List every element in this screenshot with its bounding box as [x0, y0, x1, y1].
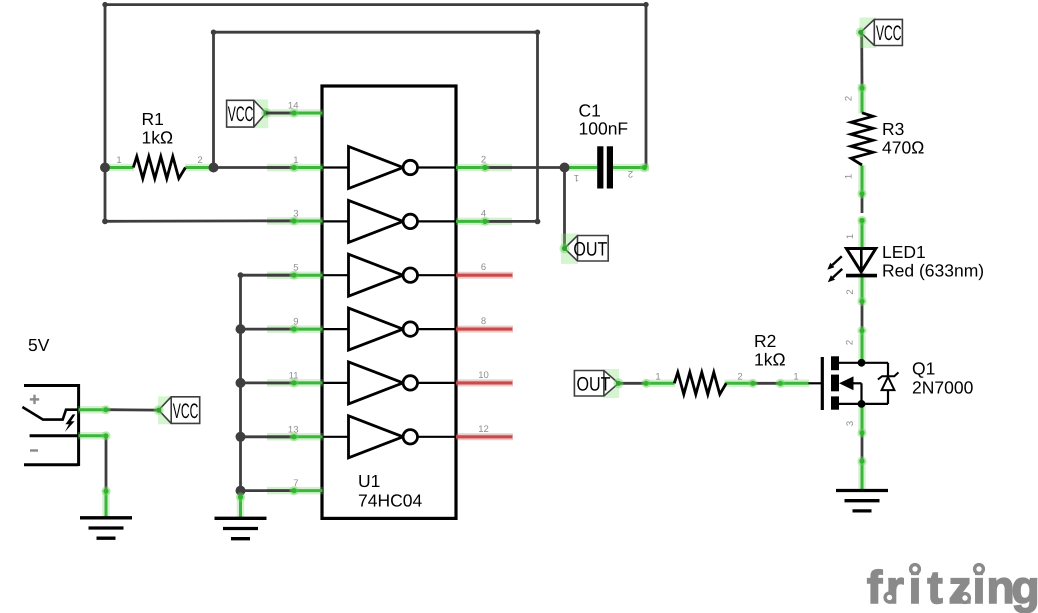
node corner top right — [643, 2, 648, 7]
svg-text:Q1: Q1 — [912, 359, 935, 379]
svg-text:OUT: OUT — [573, 238, 607, 260]
svg-text:OUT: OUT — [577, 373, 611, 395]
junction bus pin 7 — [236, 486, 246, 496]
ground symbol battery — [80, 490, 132, 538]
svg-text:1: 1 — [793, 372, 798, 383]
wire R3.1 to LED1 anode — [861, 189, 864, 213]
wire R1.2 vertical up — [212, 32, 215, 167]
wire bus to pin 9 — [241, 328, 295, 331]
svg-text:Red (633nm): Red (633nm) — [882, 261, 984, 281]
svg-text:2: 2 — [628, 168, 633, 179]
svg-text:R2: R2 — [754, 331, 776, 351]
svg-text:VCC: VCC — [876, 22, 902, 45]
junction R1 pin1 — [100, 163, 110, 173]
svg-text:1: 1 — [845, 234, 856, 239]
svg-text:2N7000: 2N7000 — [912, 378, 974, 398]
capacitor C1 100nF — [561, 101, 649, 189]
svg-text:U1: U1 — [358, 471, 380, 491]
junction bus pin 13 — [236, 432, 246, 442]
wire overlay strokes over pin halos — [266, 113, 512, 491]
node feedback corner — [102, 218, 108, 224]
svg-text:1: 1 — [116, 155, 121, 166]
junction R1 pin2 — [209, 163, 219, 173]
node green wire end dots — [101, 83, 866, 501]
op-amp U1 74HC04 hex inverter — [267, 86, 513, 518]
svg-text:n: n — [986, 561, 1014, 613]
transistor Q1 2N7000 n-MOSFET — [780, 331, 974, 433]
resistor R3 470 ohm — [844, 84, 925, 194]
wire second top horizontal — [214, 31, 538, 34]
node dark junction and corner dots — [100, 2, 649, 496]
wire pin 2 to C1 junction — [485, 166, 565, 169]
wire bus to pin 11 — [241, 381, 295, 384]
LED1 Red 633nm — [827, 218, 984, 303]
power source 5V barrel jack J1 — [22, 335, 106, 466]
svg-text:100nF: 100nF — [579, 119, 629, 139]
svg-text:z: z — [949, 561, 972, 613]
power label VCC flag at battery — [154, 396, 200, 424]
svg-text:10: 10 — [478, 370, 489, 381]
svg-text:g: g — [1011, 561, 1038, 613]
junction bus pin 11 — [236, 378, 246, 388]
svg-text:1: 1 — [655, 372, 660, 383]
svg-text:2: 2 — [737, 372, 742, 383]
wire battery minus down — [105, 436, 108, 491]
wire pin 4 to vertical — [485, 220, 538, 223]
svg-text:1: 1 — [574, 172, 579, 183]
svg-text:2: 2 — [197, 155, 202, 166]
net label OUT flag lower — [574, 369, 623, 398]
svg-text:12: 12 — [478, 424, 489, 435]
power label VCC flag at pin 14 — [227, 99, 271, 128]
net label OUT flag upper — [560, 234, 609, 264]
svg-text:1kΩ: 1kΩ — [754, 350, 786, 370]
wire R2.2 to Q1 gate — [753, 382, 780, 385]
svg-text:1kΩ: 1kΩ — [142, 128, 174, 148]
svg-text:VCC: VCC — [228, 103, 254, 126]
wire VCC flag to pin 14 — [266, 112, 294, 115]
junction bus pin 9 — [236, 324, 246, 334]
svg-text:1: 1 — [844, 174, 855, 179]
svg-text:3: 3 — [845, 421, 856, 426]
wire bus to pin 7 — [241, 489, 295, 492]
power label VCC flag top right — [856, 18, 903, 49]
svg-text:r: r — [886, 561, 904, 613]
wire battery plus to VCC flag — [106, 408, 159, 411]
svg-text:t: t — [927, 561, 942, 613]
svg-text:470Ω: 470Ω — [882, 138, 924, 158]
svg-text:VCC: VCC — [173, 400, 199, 423]
wire LED1 cathode to Q1 drain — [861, 301, 864, 335]
node corner top left — [102, 2, 107, 7]
svg-text:LED1: LED1 — [882, 242, 926, 262]
junction C1 pin1 OUT — [560, 163, 570, 173]
wire top net A horizontal — [105, 3, 646, 6]
svg-text:R3: R3 — [882, 119, 904, 139]
resistor R2 1k — [645, 331, 786, 394]
svg-text:2: 2 — [844, 96, 855, 101]
node pin4 bend — [535, 219, 541, 225]
wire junction down to OUT flag — [563, 168, 566, 247]
node corner second right — [535, 30, 540, 35]
svg-text:5V: 5V — [28, 335, 50, 355]
svg-text:74HC04: 74HC04 — [358, 491, 422, 511]
svg-text:C1: C1 — [579, 101, 601, 121]
fritzing watermark logo — [867, 561, 1038, 613]
wire vertical down to pin 4 — [536, 32, 539, 221]
wire bus to pin 13 — [241, 435, 295, 438]
svg-text:2: 2 — [845, 289, 856, 294]
ground symbol IC — [215, 490, 267, 539]
svg-text:R1: R1 — [142, 109, 164, 129]
wire OUT flag to R2.1 — [619, 382, 646, 385]
wire Q1 source to ground — [861, 432, 864, 462]
wire net A right vertical to C1 pin2 — [645, 5, 648, 168]
wire left bus vertical — [239, 275, 242, 491]
node corner second left — [211, 30, 216, 35]
svg-text:6: 6 — [481, 262, 486, 273]
wire bus to pin 5 — [241, 274, 295, 277]
svg-text:f: f — [867, 561, 883, 613]
wire feedback to pin 3 — [105, 219, 294, 222]
wire VCC flag down to R3.2 — [860, 34, 863, 89]
svg-text:2: 2 — [845, 340, 856, 345]
node bus top corner — [238, 272, 244, 278]
wire R1.2 to pin 1 — [214, 166, 295, 169]
ground symbol Q1 source — [836, 462, 888, 511]
resistor R1 1k — [104, 109, 213, 179]
wire net A left vertical — [104, 5, 107, 222]
svg-text:8: 8 — [481, 316, 486, 327]
